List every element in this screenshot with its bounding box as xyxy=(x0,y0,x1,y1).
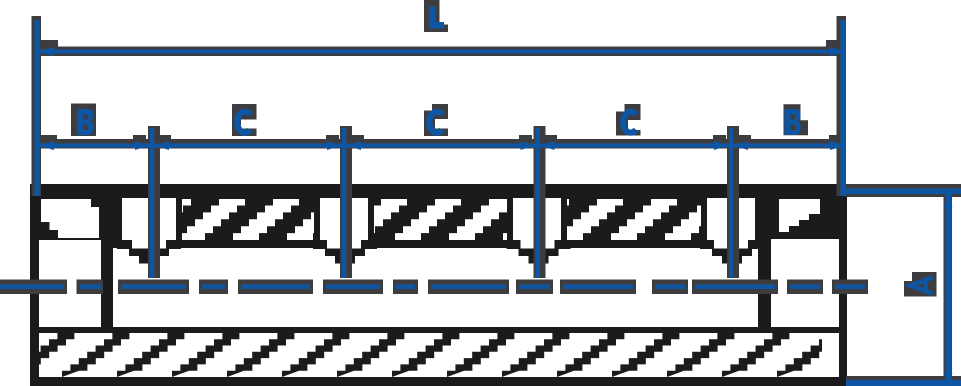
left end cell hatch: black lower-left stair xyxy=(41,214,58,238)
left end cell hatch: black upper-right block xyxy=(91,199,99,207)
hole 1 counterbore step xyxy=(132,240,166,249)
hole 2 counterbore xyxy=(320,198,368,240)
B/C arrows at tick 537.5 xyxy=(521,141,536,150)
extension line right (L) xyxy=(841,20,847,196)
hole 3 counterbore step xyxy=(521,240,555,249)
shadow: hole extension columns xyxy=(148,126,160,278)
top plate hatch stripes (black) xyxy=(151,199,759,240)
A top extension line xyxy=(846,189,961,195)
bottom plate hatch zone xyxy=(39,333,822,377)
V boss hole 4 xyxy=(700,240,764,264)
shadow blob: letter B1 xyxy=(71,104,96,137)
right outer wall xyxy=(839,184,847,386)
hole extension lines xyxy=(150,128,154,278)
rail section: top surface band xyxy=(30,184,846,197)
letter B1 xyxy=(77,109,93,135)
shadow: right extension line of L xyxy=(837,16,847,196)
shadow: L dimension line xyxy=(33,47,846,57)
A bottom extension line xyxy=(846,380,961,386)
letter B2 xyxy=(785,109,801,135)
L dimension line xyxy=(37,50,846,54)
A dimension line xyxy=(946,194,952,386)
shadow blob: letter L xyxy=(424,0,448,32)
letter C2 xyxy=(429,112,442,133)
hole 4 counterbore step xyxy=(714,240,748,249)
A arrow bottom xyxy=(944,373,953,384)
V boss hole 2 xyxy=(313,240,377,264)
shadow blob: letter A xyxy=(904,272,937,297)
bottom plate hatch stripes (black) xyxy=(0,333,844,377)
shadow blobs: centerline dashes xyxy=(0,280,67,295)
shadow: B/C dimension line xyxy=(33,139,846,149)
right end bore column xyxy=(771,239,839,333)
letter C3 xyxy=(623,112,636,133)
L arrow left xyxy=(38,47,54,56)
letter L xyxy=(429,7,444,29)
hole 3 counterbore xyxy=(513,198,561,240)
inner wall left xyxy=(101,196,113,333)
extension line left (L) xyxy=(35,20,41,196)
A arrow top xyxy=(944,196,953,207)
hole 4 counterbore xyxy=(707,198,755,240)
shadow blob: L right arrow xyxy=(826,40,843,50)
shadow blob: letter C3 xyxy=(616,104,641,136)
centerline dashes xyxy=(0,285,64,290)
B/C arrow at x38 xyxy=(38,141,54,150)
B/C arrows at tick 344 xyxy=(327,141,342,150)
shadow blob: L left arrow xyxy=(41,40,58,50)
hole 2 counterbore step xyxy=(327,240,361,249)
letter A (rotated, apex left) xyxy=(911,278,933,294)
left end bore column xyxy=(39,240,103,333)
shadow: A dimension line xyxy=(944,194,953,386)
L arrow right xyxy=(830,47,846,56)
top plate hatch zones (white) xyxy=(41,199,820,240)
rail section: top plate body xyxy=(30,196,846,249)
shadow blobs: arrows on B/C line xyxy=(40,135,57,145)
B/C arrows at tick 731 xyxy=(714,141,729,150)
letter C1 xyxy=(237,112,250,133)
hollow interior xyxy=(113,248,758,327)
shadow blob: letter C1 xyxy=(232,104,257,136)
hole 1 counterbore xyxy=(122,198,176,240)
bottom plate top edge xyxy=(30,327,846,333)
shadow blob: letter C2 xyxy=(424,104,448,136)
V boss hole 1 xyxy=(117,240,181,264)
left outer wall xyxy=(30,184,39,386)
shadow: left extension line of L xyxy=(32,16,42,196)
B/C dimension line xyxy=(37,144,846,148)
shadow blob: letter B2 xyxy=(784,104,809,135)
shadow: A bottom extension line xyxy=(846,376,961,383)
right end cell hatch details xyxy=(779,214,820,238)
inner wall right xyxy=(758,196,771,333)
B/C arrow at x846 xyxy=(830,141,846,150)
shadow: A top extension line xyxy=(846,184,961,197)
V boss hole 3 xyxy=(507,240,571,264)
bottom band xyxy=(30,377,846,386)
B/C arrows at tick 152 xyxy=(135,141,150,150)
